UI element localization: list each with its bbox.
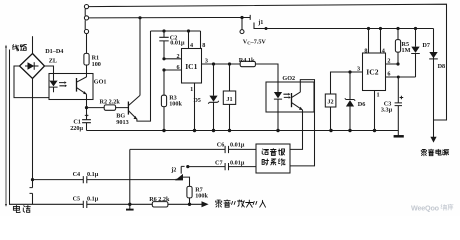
- svg-text:J1: J1: [226, 96, 232, 103]
- svg-text:8: 8: [364, 47, 367, 54]
- svg-text:C5: C5: [73, 195, 81, 202]
- svg-text:WeeQoo: WeeQoo: [411, 204, 440, 213]
- svg-text:J2: J2: [327, 98, 333, 105]
- svg-text:4: 4: [382, 47, 385, 54]
- svg-text:C7: C7: [215, 160, 223, 167]
- svg-text:1: 1: [377, 91, 380, 98]
- svg-text:GO1: GO1: [94, 79, 107, 86]
- svg-text:4: 4: [190, 42, 193, 49]
- svg-text:C6: C6: [217, 142, 225, 149]
- svg-text:ZL: ZL: [49, 57, 57, 64]
- svg-text:D6: D6: [358, 101, 366, 108]
- svg-text:D5: D5: [193, 97, 201, 104]
- svg-text:GO2: GO2: [282, 75, 295, 82]
- svg-text:100k: 100k: [195, 193, 208, 200]
- svg-text:3: 3: [205, 57, 208, 64]
- svg-text:IC1: IC1: [185, 62, 197, 71]
- svg-text:6: 6: [387, 71, 390, 78]
- svg-text:8: 8: [202, 42, 205, 49]
- svg-text:D1–D4: D1–D4: [45, 48, 63, 55]
- svg-text:1: 1: [190, 86, 193, 93]
- svg-text:1M: 1M: [402, 47, 411, 54]
- svg-text:R6 2.2k: R6 2.2k: [149, 196, 170, 203]
- svg-text:2: 2: [177, 53, 180, 60]
- svg-text:j1: j1: [257, 19, 263, 26]
- svg-text:R4 1k: R4 1k: [239, 57, 255, 64]
- svg-text:j2: j2: [170, 167, 176, 174]
- svg-text:0.01μ: 0.01μ: [170, 40, 185, 47]
- svg-text:100k: 100k: [169, 101, 182, 108]
- svg-text:0.1μ: 0.1μ: [87, 195, 99, 202]
- svg-text:C4: C4: [73, 171, 81, 178]
- svg-text:3.3μ: 3.3μ: [381, 107, 393, 114]
- svg-text:VC–7.5V: VC–7.5V: [243, 39, 267, 46]
- svg-text:0.1μ: 0.1μ: [87, 171, 99, 178]
- svg-text:D7: D7: [422, 42, 430, 49]
- svg-text:D8: D8: [438, 63, 446, 70]
- svg-text:100: 100: [92, 61, 101, 68]
- svg-text:6: 6: [177, 64, 180, 71]
- svg-text:2: 2: [387, 58, 390, 65]
- svg-text:0.01μ: 0.01μ: [230, 142, 245, 149]
- svg-text:9013: 9013: [116, 119, 128, 126]
- svg-text:3: 3: [357, 66, 360, 73]
- svg-text:R2 2.2k: R2 2.2k: [100, 98, 121, 105]
- svg-text:IC2: IC2: [366, 67, 378, 76]
- svg-text:0.01μ: 0.01μ: [230, 160, 245, 167]
- svg-text:220μ: 220μ: [70, 125, 83, 132]
